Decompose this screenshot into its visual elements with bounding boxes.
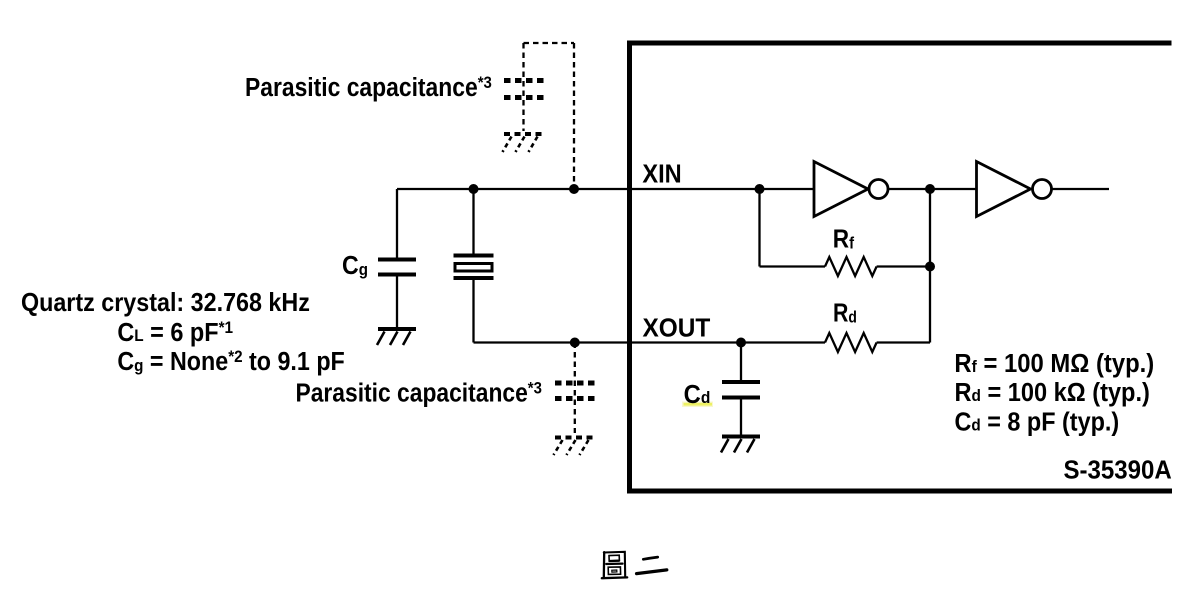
wire Rf left horizontal bbox=[760, 265, 826, 267]
label Cg value bbox=[117, 347, 344, 376]
wire Cg to ground bbox=[396, 276, 398, 329]
svg-text:Parasitic capacitance*3: Parasitic capacitance*3 bbox=[295, 379, 542, 408]
capacitor Cg bbox=[378, 258, 416, 277]
dashed top parasitic: left leg bbox=[522, 43, 524, 131]
node XIN-inverter junction bbox=[755, 184, 765, 194]
node bottom parasitic junction bbox=[570, 338, 580, 348]
wire Rf left vertical bbox=[758, 189, 760, 267]
dashed top parasitic: right leg bbox=[573, 43, 575, 189]
label XOUT bbox=[643, 314, 711, 343]
node Cd junction bbox=[736, 338, 746, 348]
label Rf bbox=[833, 225, 855, 254]
label Rd value bbox=[954, 379, 1149, 407]
label parasitic capacitance bottom bbox=[295, 379, 542, 408]
wire Rd to corner bbox=[877, 341, 930, 343]
label Cg bbox=[342, 252, 368, 281]
wire Cd to ground bbox=[740, 399, 742, 436]
wire vertical output node bbox=[929, 189, 931, 343]
dashed top parasitic: horizontal bbox=[524, 42, 575, 44]
capacitor parasitic top (dashed) bbox=[504, 81, 545, 98]
label quartz crystal line1 bbox=[21, 289, 310, 317]
svg-text:Rf = 100 MΩ (typ.): Rf = 100 MΩ (typ.) bbox=[954, 349, 1154, 378]
op-amp inverter U1 bbox=[814, 162, 888, 217]
resistor Rf bbox=[825, 257, 877, 276]
node Rf output junction bbox=[925, 262, 935, 272]
dashed bottom parasitic leg bbox=[574, 343, 576, 434]
label CL value bbox=[117, 318, 233, 347]
ground parasitic top (dashed) bbox=[503, 134, 544, 152]
svg-text:Quartz crystal: 32.768 kHz: Quartz crystal: 32.768 kHz bbox=[21, 289, 310, 317]
wire XOUT horizontal bbox=[474, 341, 826, 343]
label XIN bbox=[642, 160, 681, 188]
wire inverter2 out bbox=[1052, 188, 1110, 190]
svg-text:Rd = 100 kΩ (typ.): Rd = 100 kΩ (typ.) bbox=[954, 379, 1149, 407]
resistor Rd bbox=[825, 333, 877, 352]
crystal X1 bbox=[454, 254, 494, 281]
op-amp inverter U2 bbox=[977, 162, 1052, 217]
label parasitic capacitance top bbox=[245, 74, 492, 103]
node crystal-XIN junction bbox=[469, 184, 479, 194]
capacitor parasitic bottom (dashed) bbox=[555, 383, 596, 399]
wire Cg drop from XIN bbox=[396, 189, 398, 259]
caption 二 (two) bbox=[637, 557, 667, 574]
svg-text:Parasitic capacitance*3: Parasitic capacitance*3 bbox=[245, 74, 492, 103]
ground under Cg bbox=[377, 327, 416, 345]
label Cd value bbox=[954, 409, 1119, 437]
label Rd bbox=[833, 299, 857, 329]
ground parasitic bottom (dashed) bbox=[554, 438, 595, 456]
svg-text:XOUT: XOUT bbox=[643, 314, 711, 343]
wire Rf right bbox=[877, 265, 930, 267]
capacitor Cd bbox=[722, 380, 760, 400]
label Cd bbox=[684, 380, 711, 409]
label S-35390A bbox=[1063, 456, 1171, 485]
node top parasitic junction bbox=[569, 184, 579, 194]
label Rf value bbox=[954, 349, 1154, 378]
wire crystal bottom to XOUT bbox=[472, 278, 474, 343]
wire inverter1 out bbox=[888, 188, 977, 190]
IC boundary box S-35390A bbox=[630, 43, 1173, 491]
wire XIN horizontal bbox=[397, 188, 814, 190]
ground under Cd bbox=[721, 435, 760, 453]
svg-text:S-35390A: S-35390A bbox=[1063, 456, 1171, 485]
svg-text:XIN: XIN bbox=[642, 160, 681, 188]
node inverter1 output junction bbox=[925, 184, 935, 194]
caption 圖 (figure) bbox=[602, 552, 627, 578]
label Cd highlight bbox=[682, 402, 713, 408]
wire crystal top bbox=[472, 189, 474, 255]
wire Cd drop bbox=[740, 343, 742, 382]
